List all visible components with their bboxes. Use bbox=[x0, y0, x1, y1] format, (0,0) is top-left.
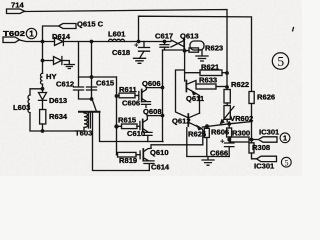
svg-text:5: 5 bbox=[277, 54, 284, 69]
svg-text:C666: C666 bbox=[210, 149, 228, 158]
svg-text:C617: C617 bbox=[155, 32, 173, 41]
svg-text:L601: L601 bbox=[108, 30, 126, 39]
svg-text:C618: C618 bbox=[112, 48, 130, 57]
svg-text:C612: C612 bbox=[56, 80, 74, 89]
svg-text:R622: R622 bbox=[231, 80, 249, 89]
svg-text:Q612: Q612 bbox=[172, 117, 191, 126]
svg-text:Q606: Q606 bbox=[142, 79, 161, 88]
svg-text:R634: R634 bbox=[49, 112, 68, 121]
svg-text:VR602: VR602 bbox=[230, 114, 253, 123]
svg-text:C615: C615 bbox=[96, 79, 115, 88]
svg-text:D614: D614 bbox=[52, 32, 71, 41]
svg-text:C610: C610 bbox=[127, 129, 145, 138]
svg-text:714: 714 bbox=[11, 1, 24, 10]
svg-text:R819: R819 bbox=[119, 156, 137, 165]
svg-text:R615: R615 bbox=[118, 116, 137, 125]
svg-text:Q611: Q611 bbox=[186, 94, 205, 103]
svg-text:R626: R626 bbox=[257, 93, 275, 102]
svg-text:Q610: Q610 bbox=[150, 148, 169, 157]
svg-text:Q608: Q608 bbox=[143, 107, 162, 116]
svg-text:IC301: IC301 bbox=[259, 128, 280, 137]
svg-text:C614: C614 bbox=[151, 163, 170, 172]
svg-text:1: 1 bbox=[29, 29, 34, 38]
svg-text:IC301: IC301 bbox=[254, 162, 275, 171]
svg-text:R625: R625 bbox=[188, 130, 207, 139]
svg-text:T602: T602 bbox=[3, 29, 25, 38]
svg-text:Q615 C: Q615 C bbox=[77, 20, 104, 29]
svg-text:R308: R308 bbox=[252, 143, 270, 152]
svg-text:C606: C606 bbox=[122, 99, 140, 108]
svg-text:T603: T603 bbox=[75, 129, 92, 138]
svg-text:R300: R300 bbox=[232, 129, 250, 138]
svg-text:L603: L603 bbox=[13, 103, 30, 112]
svg-text:Q613: Q613 bbox=[180, 32, 199, 41]
svg-text:R623: R623 bbox=[205, 44, 223, 53]
svg-text:R611: R611 bbox=[119, 85, 138, 94]
svg-text:1: 1 bbox=[283, 134, 287, 143]
svg-text:5: 5 bbox=[285, 158, 289, 167]
svg-text:HY: HY bbox=[46, 72, 57, 81]
svg-text:R621: R621 bbox=[201, 63, 220, 72]
svg-text:D613: D613 bbox=[49, 96, 67, 105]
svg-text:R606: R606 bbox=[211, 128, 229, 137]
svg-text:R633: R633 bbox=[199, 76, 217, 85]
